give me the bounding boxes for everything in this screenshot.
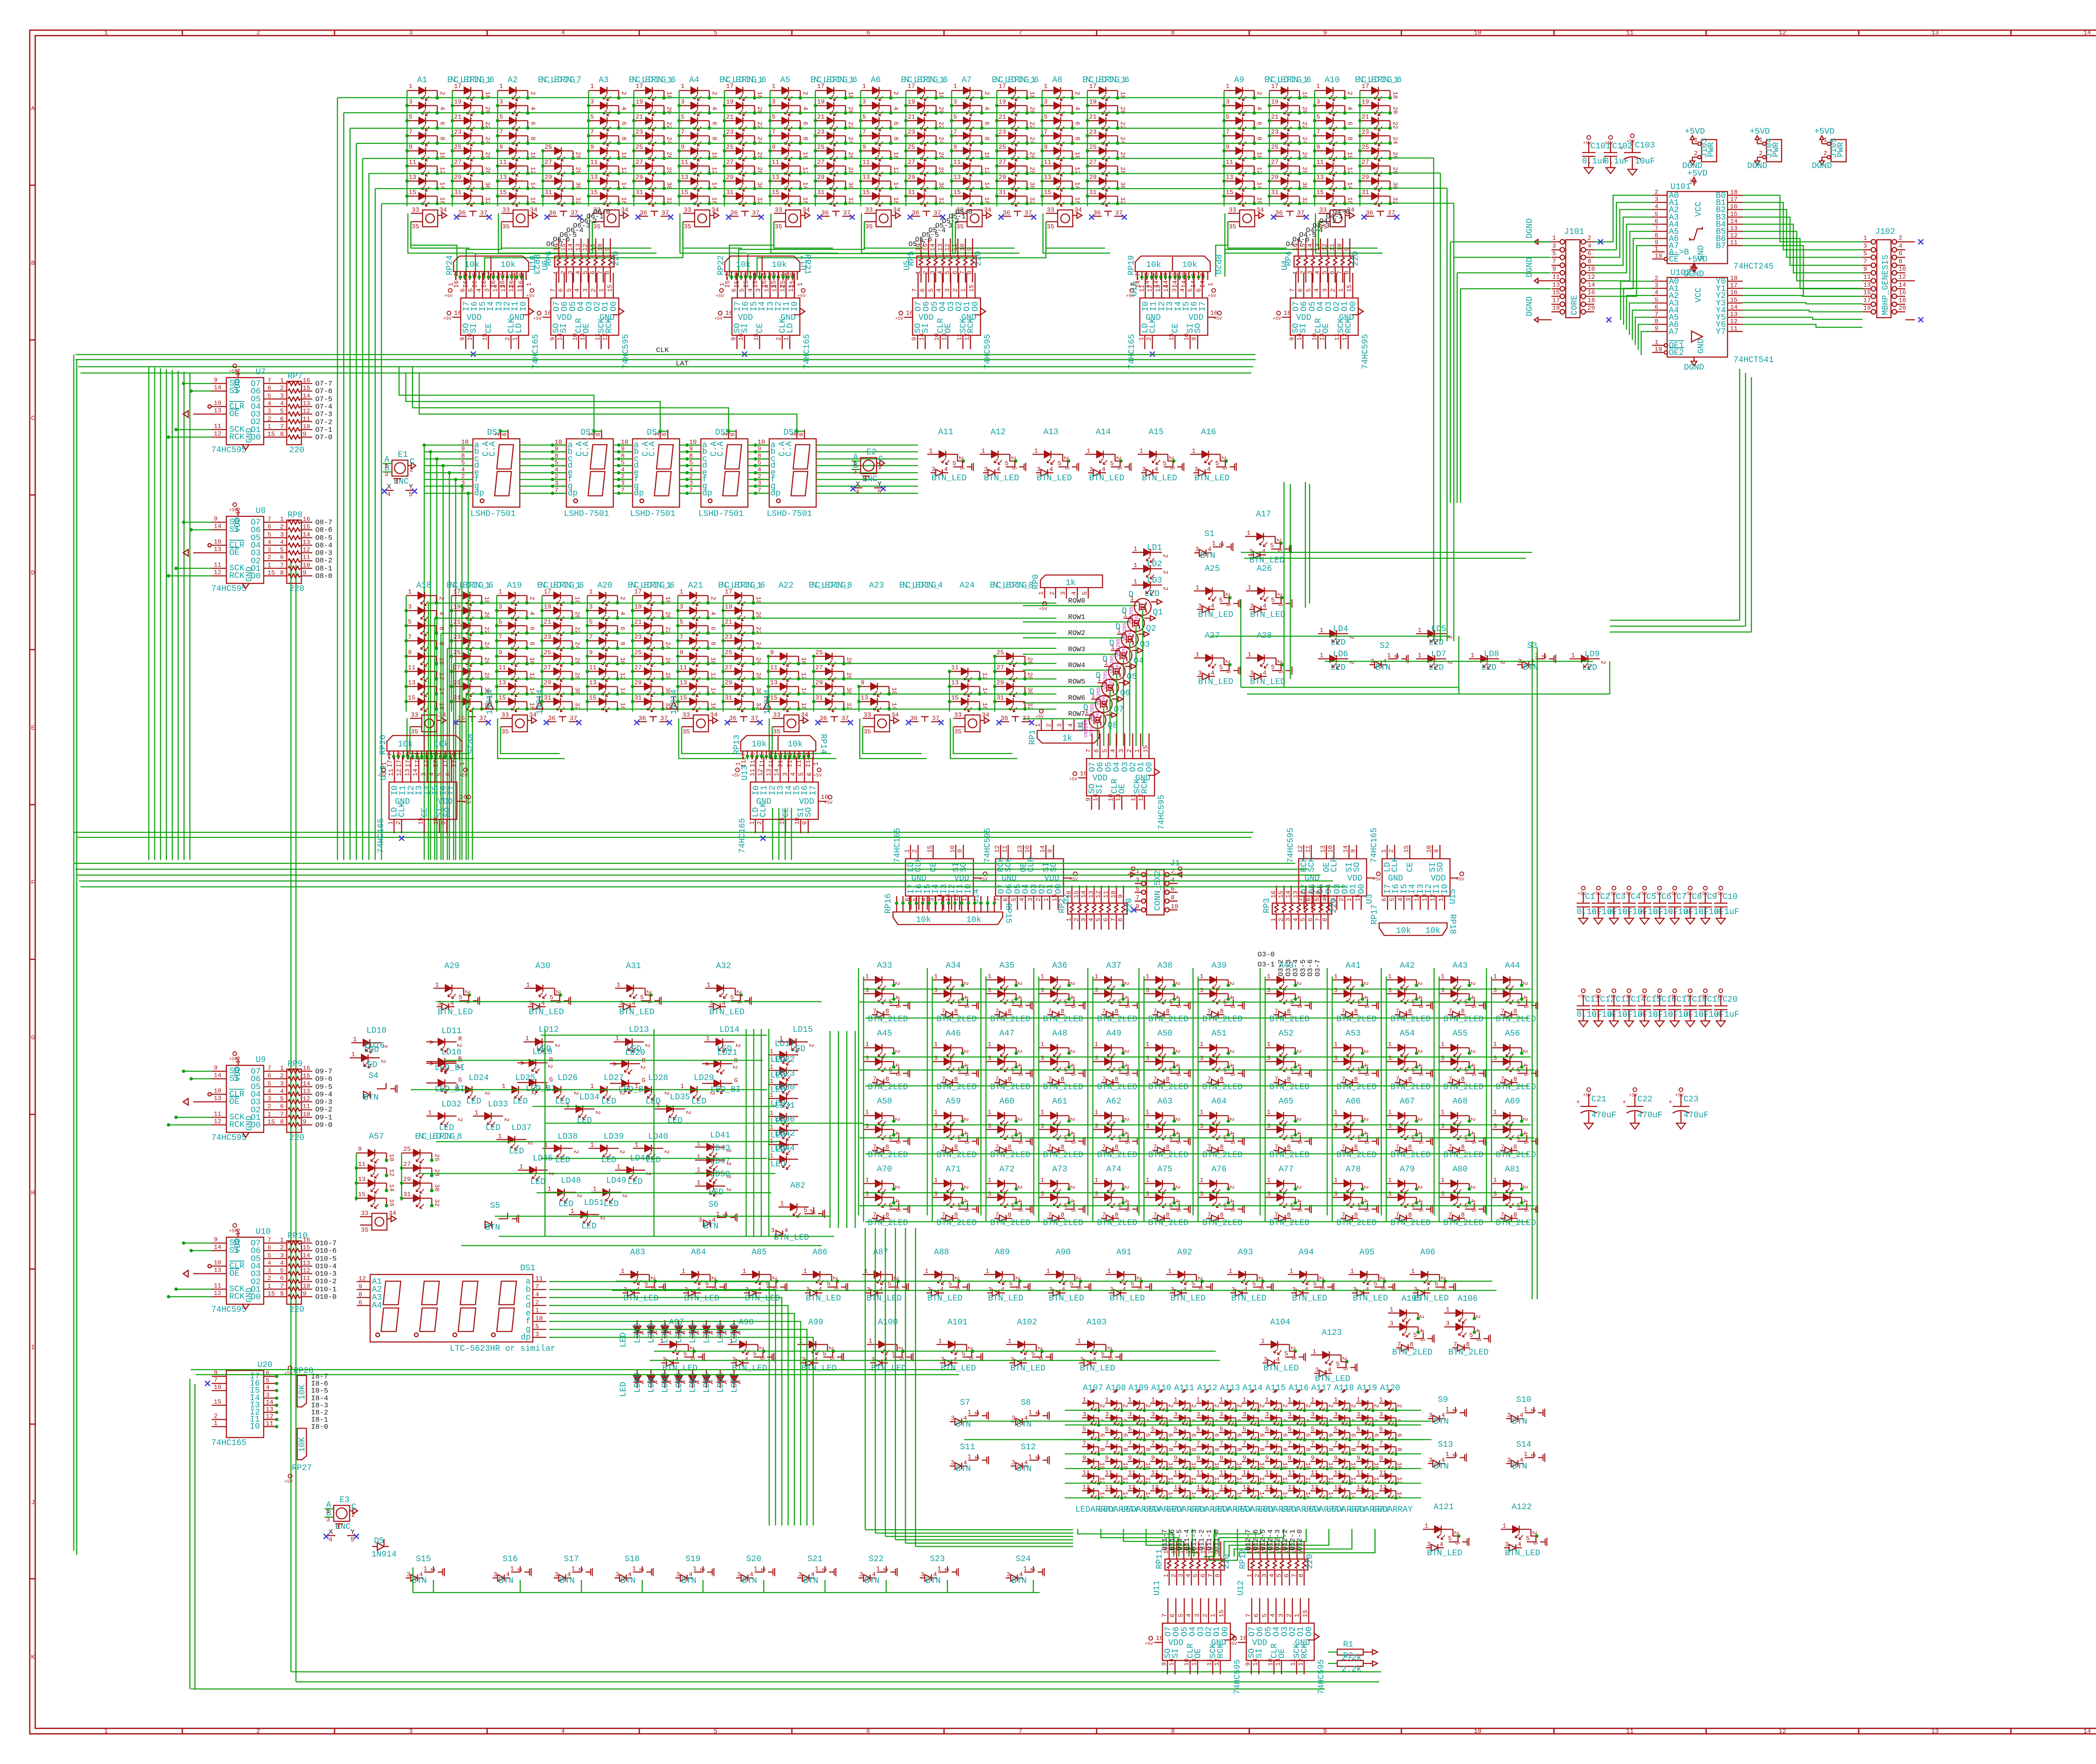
svg-text:2: 2 (643, 1044, 651, 1047)
svg-text:3: 3 (680, 604, 683, 611)
svg-text:8: 8 (1281, 1448, 1288, 1451)
svg-text:A46: A46 (946, 1029, 961, 1039)
wire bus - left secondary verticals (149, 367, 190, 860)
wires - A83 row lines (612, 1281, 1497, 1290)
svg-text:9: 9 (440, 821, 447, 825)
svg-text:2: 2 (1105, 1346, 1113, 1350)
svg-text:5: 5 (566, 288, 573, 292)
svg-text:8: 8 (1513, 1076, 1517, 1083)
svg-text:5: 5 (535, 1323, 539, 1330)
svg-text:S15: S15 (416, 1554, 431, 1564)
svg-text:5: 5 (1334, 1426, 1338, 1433)
svg-text:7: 7 (995, 1008, 999, 1015)
svg-text:4: 4 (722, 1000, 726, 1007)
svg-text:25: 25 (545, 144, 552, 151)
svg-text:A44: A44 (1505, 961, 1520, 971)
svg-text:13: 13 (770, 679, 778, 686)
svg-text:9: 9 (589, 649, 593, 656)
svg-text:5: 5 (1151, 1426, 1155, 1433)
svg-text:7: 7 (1196, 1440, 1200, 1447)
svg-text:O12-3: O12-3 (1274, 1529, 1282, 1551)
svg-text:3: 3 (1505, 1541, 1509, 1548)
svg-text:6: 6 (1200, 1574, 1207, 1577)
svg-text:3: 3 (1037, 466, 1040, 473)
button/LED cell A123 (1311, 1328, 1357, 1384)
svg-text:A36: A36 (1052, 961, 1067, 971)
svg-text:3: 3 (1200, 1055, 1204, 1062)
svg-text:O8-2: O8-2 (315, 557, 332, 565)
svg-text:13: 13 (1128, 1484, 1136, 1491)
svg-text:6: 6 (1213, 1433, 1220, 1437)
IC U101 74HCT245 (1652, 169, 1774, 279)
svg-text:O0: O0 (251, 1121, 261, 1130)
svg-text:A16: A16 (1201, 427, 1216, 437)
svg-text:14: 14 (929, 243, 936, 251)
svg-text:4: 4 (1061, 1286, 1065, 1293)
svg-text:13: 13 (358, 1176, 366, 1183)
svg-text:15: 15 (772, 189, 779, 196)
svg-text:13: 13 (404, 769, 411, 776)
svg-text:1N914: 1N914 (485, 689, 495, 715)
svg-text:1: 1 (590, 83, 594, 90)
svg-text:13: 13 (1219, 1484, 1227, 1491)
svg-text:6: 6 (952, 271, 959, 275)
svg-text:O10-0: O10-0 (315, 1293, 337, 1301)
svg-text:2: 2 (1378, 1276, 1385, 1280)
svg-text:3: 3 (1315, 1367, 1319, 1374)
svg-text:2: 2 (892, 91, 899, 95)
svg-text:12: 12 (1214, 1658, 1221, 1666)
svg-text:CLK: CLK (1148, 318, 1158, 333)
wires - U102 Y to J102 lower rows (1743, 288, 1863, 327)
svg-text:5: 5 (436, 772, 444, 776)
IC U1 74HC595 (1069, 721, 1167, 830)
svg-text:7: 7 (1265, 1440, 1269, 1447)
svg-text:8: 8 (1220, 1076, 1224, 1083)
svg-text:I7: I7 (809, 785, 818, 795)
svg-text:74HC595: 74HC595 (211, 1305, 246, 1315)
svg-text:9: 9 (1105, 1455, 1109, 1462)
svg-text:10: 10 (1108, 794, 1115, 801)
svg-text:LSHD-7501: LSHD-7501 (698, 509, 744, 519)
svg-text:A102: A102 (1017, 1318, 1037, 1327)
svg-text:BTN_2LED: BTN_2LED (1392, 1348, 1432, 1357)
svg-text:6: 6 (1075, 1286, 1082, 1290)
svg-text:7: 7 (1018, 29, 1022, 36)
button/2-LED cell A63 (1144, 1097, 1190, 1160)
svg-text:1: 1 (1334, 1177, 1338, 1184)
svg-text:1: 1 (770, 1078, 773, 1085)
svg-text:2: 2 (1275, 538, 1282, 542)
svg-text:S7: S7 (960, 1398, 970, 1408)
svg-text:BTN_2LED: BTN_2LED (868, 1218, 908, 1228)
svg-text:6: 6 (280, 416, 284, 423)
svg-text:4: 4 (438, 106, 446, 110)
svg-text:6: 6 (1136, 1286, 1143, 1290)
LED group LD10-LD16 (350, 1025, 815, 1070)
button/2-LED cell A79 (1386, 1165, 1432, 1228)
svg-text:I6-7: I6-7 (453, 273, 460, 288)
button S18 (615, 1554, 653, 1586)
svg-text:LEDARRAY: LEDARRAY (1372, 1505, 1413, 1515)
svg-text:7: 7 (589, 634, 593, 641)
svg-text:1N914: 1N914 (669, 689, 679, 715)
svg-text:RP0: RP0 (1031, 574, 1041, 589)
svg-text:9: 9 (1379, 1455, 1383, 1462)
svg-text:3: 3 (1178, 1574, 1185, 1577)
wires - Q outputs (1097, 599, 1162, 746)
svg-text:5: 5 (1082, 591, 1089, 595)
svg-text:BTN_LED: BTN_LED (1250, 677, 1285, 687)
svg-text:O8-0: O8-0 (315, 572, 332, 580)
svg-text:29: 29 (634, 679, 642, 686)
svg-text:3: 3 (1095, 1191, 1098, 1198)
svg-text:I1-4: I1-4 (768, 752, 775, 767)
svg-text:1: 1 (981, 448, 985, 455)
svg-text:BTN_2LED: BTN_2LED (1390, 1150, 1431, 1160)
svg-text:9: 9 (214, 515, 218, 523)
svg-text:74HC595: 74HC595 (211, 1133, 246, 1143)
svg-text:11: 11 (409, 159, 416, 166)
svg-text:dp: dp (770, 489, 781, 498)
svg-text:10: 10 (388, 1154, 395, 1161)
svg-text:23: 23 (725, 634, 732, 641)
svg-text:Q7: Q7 (1114, 705, 1124, 715)
svg-text:BTN_LED: BTN_LED (1198, 610, 1233, 620)
svg-text:1: 1 (988, 1109, 991, 1116)
svg-text:ROW1: ROW1 (1068, 614, 1085, 622)
svg-text:O8-6: O8-6 (315, 526, 332, 534)
svg-text:8: 8 (1408, 1212, 1412, 1219)
svg-text:7: 7 (499, 129, 503, 136)
IC U102 74HCT541 (1652, 255, 1774, 373)
svg-text:O9-1: O9-1 (315, 1114, 332, 1122)
svg-text:6: 6 (280, 1103, 284, 1110)
svg-text:1: 1 (754, 1565, 757, 1572)
svg-text:7: 7 (280, 423, 284, 430)
svg-text:3: 3 (1226, 98, 1230, 106)
svg-text:5: 5 (1192, 1574, 1199, 1577)
svg-text:11: 11 (214, 1111, 221, 1118)
svg-text:LED: LED (1144, 589, 1160, 599)
capacitor C5 0.1uF (1638, 886, 1663, 925)
button/2-LED cell A61 (1039, 1097, 1085, 1160)
svg-text:6: 6 (267, 1072, 271, 1080)
svg-text:8: 8 (709, 642, 716, 645)
IC U15 74HC165 (1370, 828, 1464, 910)
svg-text:BTN: BTN (681, 1576, 696, 1586)
svg-text:10: 10 (572, 333, 579, 341)
svg-text:15: 15 (1302, 1610, 1309, 1617)
svg-text:4: 4 (1396, 1419, 1403, 1422)
svg-text:BTN_2LED: BTN_2LED (1202, 1218, 1243, 1228)
svg-text:1: 1 (1441, 1177, 1445, 1184)
svg-text:13: 13 (862, 174, 870, 181)
svg-text:9: 9 (358, 1283, 362, 1290)
svg-text:1: 1 (1226, 83, 1230, 90)
svg-text:6: 6 (963, 1072, 970, 1076)
svg-text:A25: A25 (1205, 564, 1220, 574)
svg-text:9: 9 (730, 337, 737, 341)
svg-text:9: 9 (681, 144, 685, 151)
svg-text:RP19: RP19 (1127, 255, 1136, 275)
resistor pack RP5 220 (907, 238, 983, 282)
svg-text:13: 13 (953, 174, 961, 181)
svg-text:I1-3: I1-3 (777, 752, 784, 767)
IC U16 74HC165 (1127, 273, 1222, 369)
svg-text:17: 17 (634, 588, 642, 596)
button/2-LED cell A54 (1386, 1029, 1432, 1092)
svg-text:BTN_2LED: BTN_2LED (1336, 1218, 1377, 1228)
svg-text:12: 12 (779, 285, 786, 292)
button/2-LED cell A46 (932, 1029, 978, 1092)
svg-text:BTN_LED: BTN_LED (619, 1008, 654, 1017)
svg-text:LD30: LD30 (775, 1083, 795, 1093)
svg-text:S11: S11 (960, 1443, 975, 1452)
svg-text:1: 1 (1138, 337, 1145, 341)
svg-text:2: 2 (1439, 1276, 1446, 1280)
svg-text:2: 2 (1349, 1404, 1357, 1408)
svg-text:5: 5 (408, 619, 412, 626)
button S22 (859, 1554, 897, 1586)
svg-text:12: 12 (1779, 1728, 1786, 1735)
svg-text:11: 11 (1219, 1469, 1227, 1476)
svg-text:3: 3 (1265, 1411, 1269, 1418)
svg-text:1: 1 (1471, 652, 1474, 659)
svg-text:1: 1 (1008, 1338, 1012, 1345)
svg-text:BTN_2LED: BTN_2LED (1390, 1218, 1431, 1228)
resistor pack RP8 220 (287, 520, 301, 583)
svg-text:BTN_LED: BTN_LED (1089, 474, 1124, 483)
svg-text:10: 10 (214, 539, 221, 546)
svg-text:O10-4: O10-4 (315, 1263, 337, 1271)
svg-text:13: 13 (408, 679, 415, 686)
svg-text:A37: A37 (1106, 961, 1121, 971)
svg-text:3: 3 (1080, 1356, 1084, 1363)
svg-text:7: 7 (995, 1076, 999, 1083)
IC U20 74HC165 (205, 1360, 328, 1448)
svg-text:10k: 10k (772, 260, 787, 270)
svg-text:3: 3 (499, 98, 503, 106)
svg-text:A18: A18 (416, 581, 431, 591)
svg-text:9: 9 (802, 821, 809, 825)
svg-text:5: 5 (1265, 1426, 1269, 1433)
svg-text:5: 5 (1163, 460, 1167, 467)
svg-text:O9-4: O9-4 (315, 1091, 332, 1099)
svg-text:2: 2 (1049, 591, 1056, 595)
svg-text:3: 3 (1334, 1055, 1338, 1062)
svg-text:1: 1 (934, 1177, 938, 1184)
svg-text:9: 9 (1161, 1662, 1168, 1666)
svg-text:1: 1 (1267, 973, 1271, 980)
svg-text:27: 27 (636, 159, 643, 166)
svg-text:7: 7 (214, 1377, 218, 1384)
svg-text:6: 6 (1074, 122, 1081, 125)
svg-text:9: 9 (770, 649, 774, 656)
svg-text:15: 15 (1218, 1610, 1225, 1617)
svg-text:4: 4 (1268, 1574, 1276, 1577)
svg-text:3: 3 (1388, 1055, 1392, 1062)
svg-text:1: 1 (693, 1565, 697, 1572)
svg-text:9: 9 (1334, 1455, 1338, 1462)
svg-text:RP12: RP12 (1238, 1549, 1248, 1569)
button/LED cell A25 (1194, 564, 1240, 620)
svg-text:BTN_2LED: BTN_2LED (1443, 1083, 1484, 1092)
svg-text:O9-2: O9-2 (315, 1106, 332, 1114)
svg-text:2: 2 (572, 1091, 579, 1095)
svg-text:1: 1 (598, 288, 605, 292)
wires - LD row interconnect (1210, 482, 1610, 694)
svg-text:3: 3 (798, 1571, 802, 1578)
svg-text:4: 4 (450, 1000, 454, 1007)
svg-text:6: 6 (963, 1208, 970, 1212)
svg-text:10: 10 (214, 1088, 221, 1095)
resistor pack RP0 1k (1031, 574, 1102, 612)
svg-text:8: 8 (1408, 1144, 1412, 1151)
svg-text:29: 29 (1089, 174, 1097, 181)
svg-text:8: 8 (1220, 1144, 1224, 1151)
svg-text:6: 6 (894, 1072, 901, 1076)
svg-text:3: 3 (267, 1267, 271, 1274)
svg-text:1: 1 (510, 1565, 514, 1572)
svg-text:G: G (549, 1076, 553, 1083)
svg-text:S1: S1 (1204, 529, 1214, 539)
svg-text:2: 2 (966, 1346, 973, 1350)
svg-text:13: 13 (1174, 1484, 1181, 1491)
svg-text:23: 23 (636, 129, 643, 136)
button/LED cell A98 (728, 1318, 774, 1373)
button/2-LED cell A34 (932, 961, 978, 1024)
svg-text:D: D (1128, 590, 1134, 600)
capacitor C103 10uF (1620, 134, 1655, 176)
svg-text:3: 3 (1044, 98, 1048, 106)
svg-text:3: 3 (1194, 466, 1198, 473)
svg-text:2: 2 (1213, 1404, 1220, 1408)
svg-text:ROW3: ROW3 (1068, 646, 1085, 654)
svg-text:A95: A95 (1359, 1248, 1375, 1257)
svg-text:8: 8 (1144, 1448, 1151, 1451)
svg-text:3: 3 (853, 469, 857, 476)
svg-text:11: 11 (1626, 29, 1634, 36)
svg-text:ENC_LEDRING_8: ENC_LEDRING_8 (990, 581, 1033, 591)
svg-text:13: 13 (1082, 1484, 1090, 1491)
svg-text:7: 7 (1316, 129, 1320, 136)
svg-text:4: 4 (574, 288, 581, 292)
resistor pack RP13/RP14 10k (732, 734, 828, 778)
svg-text:3: 3 (1493, 1191, 1497, 1198)
svg-text:11: 11 (1316, 159, 1324, 166)
svg-text:4: 4 (940, 1286, 944, 1293)
svg-text:13: 13 (1314, 243, 1321, 251)
svg-text:Q1: Q1 (1153, 608, 1163, 617)
svg-text:10: 10 (214, 400, 221, 407)
svg-text:25: 25 (1089, 144, 1097, 151)
svg-text:1: 1 (853, 460, 857, 467)
resistor pack RP10 220 (287, 1241, 301, 1304)
svg-text:A8: A8 (1052, 75, 1062, 85)
svg-text:15: 15 (680, 694, 687, 702)
svg-text:C.A.: C.A. (648, 436, 657, 456)
svg-text:RCK: RCK (229, 433, 244, 442)
svg-text:1: 1 (1387, 652, 1391, 659)
svg-text:A24: A24 (960, 581, 975, 591)
svg-text:LED: LED (1429, 663, 1444, 673)
LED array A119 (1349, 1383, 1390, 1515)
resistor pack RP27 10k (284, 1428, 312, 1484)
svg-text:11: 11 (498, 664, 506, 671)
svg-text:27: 27 (544, 664, 551, 671)
svg-text:4: 4 (921, 898, 928, 901)
svg-text:30: 30 (433, 1184, 440, 1192)
LED array A117 (1304, 1383, 1344, 1515)
svg-text:19: 19 (999, 98, 1006, 106)
svg-text:C.A.: C.A. (784, 436, 794, 456)
svg-text:A66: A66 (1346, 1097, 1361, 1106)
svg-text:9: 9 (957, 849, 964, 853)
LED LD9 (1569, 650, 1606, 673)
svg-text:7: 7 (409, 129, 412, 136)
svg-text:3: 3 (1105, 1411, 1109, 1418)
svg-text:OE: OE (582, 323, 591, 333)
svg-text:6: 6 (1363, 1072, 1370, 1076)
svg-text:Y: Y (877, 481, 882, 489)
svg-text:6: 6 (1069, 1140, 1077, 1144)
svg-text:9: 9 (1265, 1455, 1269, 1462)
svg-text:VDD: VDD (557, 313, 572, 323)
svg-text:1: 1 (770, 1048, 773, 1055)
svg-text:4: 4 (280, 1088, 284, 1095)
resistor pack RP9 220 (287, 1069, 301, 1132)
capacitor C4 0.1uF (1622, 886, 1647, 925)
button/LED cell A28 (1246, 631, 1292, 687)
IC U14 74HC165 (893, 828, 988, 910)
svg-text:1: 1 (1388, 1177, 1392, 1184)
svg-text:2: 2 (351, 1512, 355, 1519)
net labels O6/O5/O4 staircase (546, 208, 1350, 249)
svg-text:S19: S19 (685, 1554, 700, 1564)
svg-text:8: 8 (1166, 1008, 1170, 1015)
resistor pack RP19/RP20 10k (1126, 254, 1222, 299)
svg-text:Q6: Q6 (1120, 689, 1130, 698)
svg-text:8: 8 (885, 1076, 889, 1083)
svg-text:LD62: LD62 (661, 1373, 670, 1393)
svg-text:4: 4 (1426, 1286, 1430, 1293)
svg-text:6: 6 (806, 772, 813, 776)
wire - switch fan to clusters (411, 222, 1318, 277)
svg-text:6: 6 (919, 288, 926, 292)
svg-text:6: 6 (1123, 1005, 1131, 1008)
svg-text:10: 10 (959, 243, 966, 251)
wires - DS segment bus (423, 443, 918, 860)
svg-text:8: 8 (954, 1008, 958, 1015)
svg-text:O11-0: O11-0 (1213, 1529, 1221, 1551)
svg-text:1: 1 (1320, 627, 1323, 634)
svg-text:SI: SI (559, 323, 569, 333)
svg-text:11: 11 (1379, 1469, 1387, 1476)
svg-text:1: 1 (865, 973, 869, 980)
svg-text:O8-7: O8-7 (315, 519, 332, 527)
svg-text:I6-4: I6-4 (481, 273, 488, 288)
svg-text:R: R (734, 1057, 738, 1065)
svg-text:11: 11 (1139, 285, 1146, 292)
svg-text:4: 4 (1144, 1419, 1151, 1422)
svg-text:8: 8 (529, 137, 536, 140)
button S19 (675, 1554, 714, 1586)
svg-text:LD35: LD35 (670, 1093, 690, 1102)
button/LED cell A14 (1085, 427, 1131, 483)
svg-text:3: 3 (1142, 466, 1146, 473)
svg-text:16: 16 (1210, 310, 1218, 317)
